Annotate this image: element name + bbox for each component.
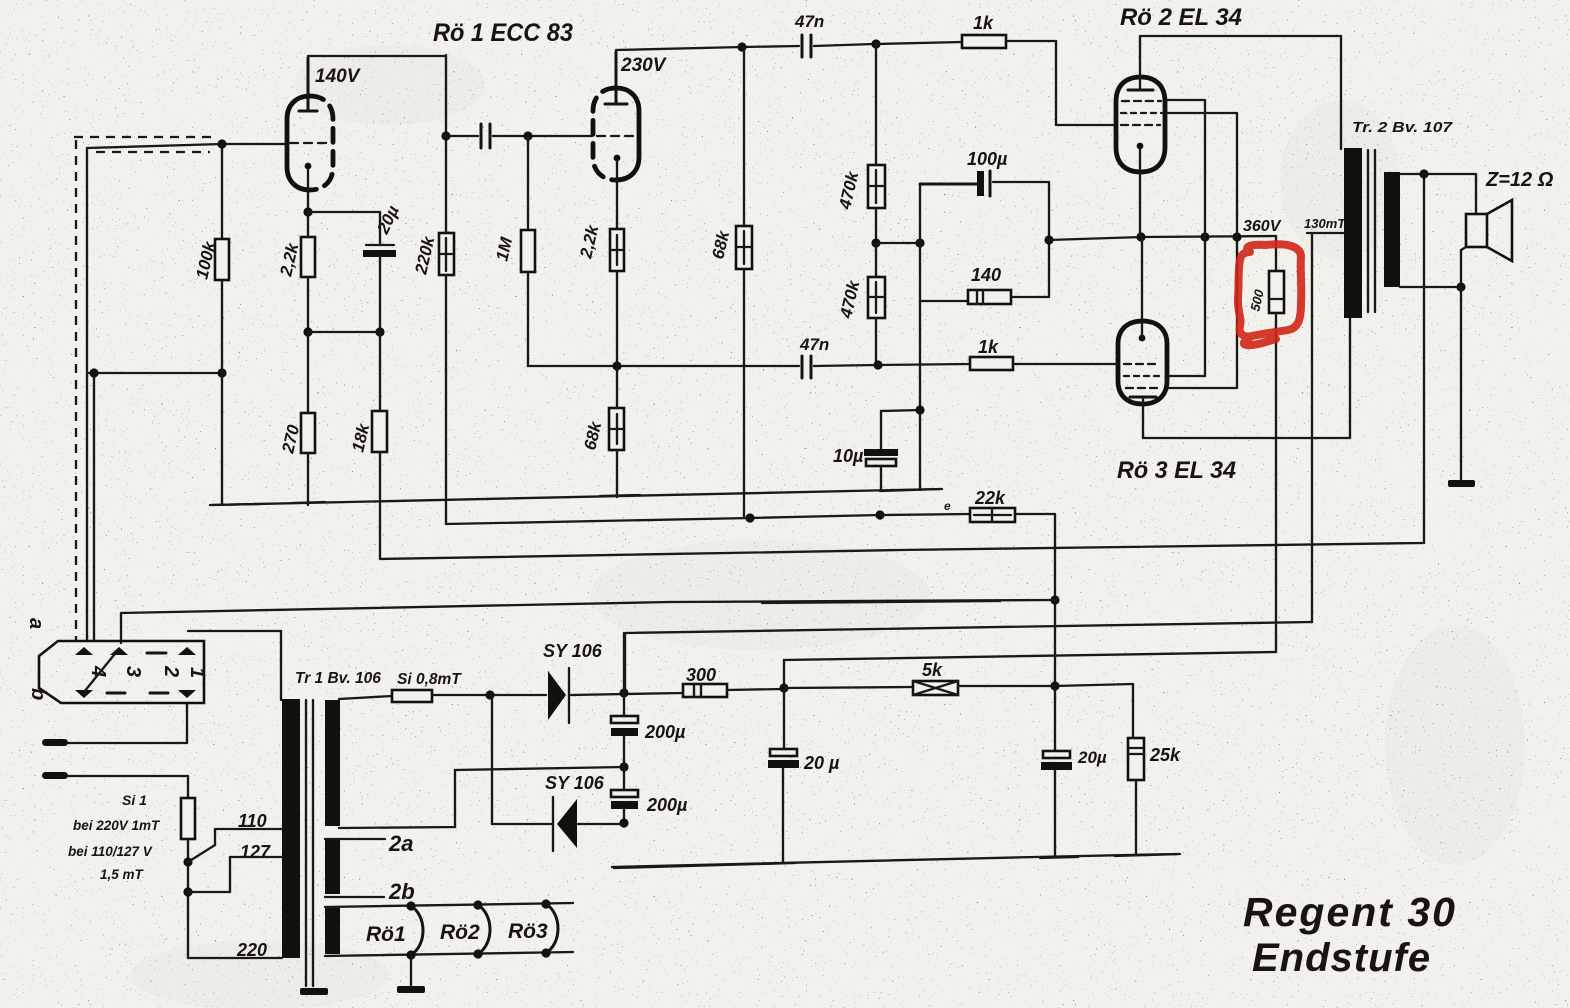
wire coupling left: [446, 135, 478, 137]
label 2a: [388, 831, 413, 856]
node selector 110: [183, 845, 215, 867]
wire 5k to node: [958, 685, 1055, 687]
svg-text:1k: 1k: [973, 13, 994, 33]
node selector 127: [183, 887, 230, 896]
svg-text:47n: 47n: [799, 335, 829, 354]
wire speaker to ground: [1461, 247, 1466, 480]
wire primary tap 220: [188, 957, 282, 959]
wire shield dashed top: [74, 137, 218, 152]
wire 500 bottom long: [784, 313, 1276, 688]
wire mains fuse feed: [339, 696, 392, 699]
resistor 500: [1269, 271, 1284, 313]
transformer Tr2 secondary winding: [1384, 172, 1400, 287]
node rail g2: [1232, 232, 1241, 241]
node heater Rö1: [406, 901, 415, 959]
connector pin 2: [147, 653, 182, 693]
label 22k: [944, 488, 1006, 513]
label Z=12 Ohm: [1485, 169, 1554, 191]
label Tr2 Bv107: [1352, 119, 1453, 136]
node line A 68k: [745, 513, 754, 522]
tube Rö2 cathode: [1137, 143, 1144, 237]
node rail cathodes: [1136, 232, 1145, 241]
svg-text:20µ: 20µ: [1077, 748, 1107, 767]
wire rectifier output up to HT: [623, 633, 625, 693]
wire 1k to grid Rö2: [1006, 41, 1117, 125]
label 100k: [192, 238, 219, 281]
resistor 470k lower: [868, 243, 885, 365]
svg-text:Endstufe: Endstufe: [1252, 936, 1431, 980]
wire Rö3 anode to transformer: [1143, 318, 1350, 438]
ground bus main: [210, 489, 942, 505]
wire 22k right vertical: [1054, 514, 1056, 686]
label Rö1 heater: [366, 923, 406, 946]
resistor 300: [683, 684, 727, 697]
capacitor 20µ psu2: [1041, 686, 1072, 857]
label 68k second: [580, 418, 605, 451]
label 25k: [1149, 745, 1181, 765]
svg-text:2: 2: [160, 665, 182, 677]
svg-text:20 µ: 20 µ: [803, 753, 840, 773]
resistor 100k: [215, 239, 229, 280]
wire 20µ bottom: [379, 257, 381, 332]
wire secondary top to speaker: [1400, 174, 1476, 214]
node 300/20µ/5k: [779, 683, 788, 692]
label SY106 lower: [545, 773, 605, 793]
tube Rö2 g2 dashes: [1121, 112, 1162, 114]
transformer Tr1 secondary winding: [325, 700, 340, 954]
node diode2 output: [619, 818, 628, 827]
svg-text:bei 220V 1mT: bei 220V 1mT: [73, 818, 161, 833]
svg-text:Rö1: Rö1: [366, 923, 406, 946]
node heater Rö2: [473, 900, 482, 958]
label 47n upper: [794, 12, 824, 31]
label 470k lower: [836, 277, 864, 321]
tube Rö2 EL34 envelope: [1116, 77, 1165, 172]
speaker Z=12: [1466, 200, 1512, 261]
wire line C: [121, 600, 1055, 643]
wire rail to 500: [1275, 236, 1277, 271]
svg-text:1k: 1k: [978, 337, 999, 357]
ground core: [300, 988, 328, 995]
tube Rö2 g1 dashes: [1121, 124, 1160, 126]
wire Rö2 anode to transformer: [1140, 36, 1341, 149]
wire lower drive: [617, 364, 970, 366]
resistor 68k (first): [736, 47, 752, 518]
tube Rö2 anode: [1128, 36, 1153, 90]
wire cathode rail: [1049, 236, 1276, 240]
svg-text:300: 300: [686, 665, 716, 685]
wire 1M top lead: [527, 136, 529, 230]
wire bias to 10µ: [881, 301, 925, 450]
wire pin1 to primary top: [188, 631, 281, 700]
label 470k upper: [835, 168, 863, 212]
resistor 220k: [439, 233, 454, 524]
label 18k: [348, 420, 373, 453]
tube Rö3 EL34 envelope: [1118, 321, 1167, 404]
label 20µ first: [373, 202, 403, 237]
ground speaker: [1448, 480, 1475, 487]
node grid Rö1a: [217, 139, 226, 148]
node coupling junction: [441, 131, 450, 140]
svg-text:Regent 30: Regent 30: [1243, 889, 1457, 935]
capacitor 20µ psu1: [768, 688, 799, 862]
wire 300 to node: [727, 689, 783, 690]
wire cathode to 20µ: [308, 212, 380, 243]
capacitor 47n upper: [802, 35, 811, 57]
capacitor 200µ lower: [611, 767, 638, 823]
diode SY106 lower: [492, 696, 624, 851]
label 1k upper: [973, 13, 994, 33]
resistor 2.2k (Rö1b cathode): [610, 229, 624, 366]
tube Rö1a grid dashes: [290, 142, 332, 144]
node speaker bottom junction: [1456, 282, 1465, 291]
label Si1 block: [68, 792, 161, 882]
red repair circle: [1238, 244, 1301, 345]
node input b junctions: [89, 368, 226, 377]
node 470k top junction: [871, 39, 880, 48]
svg-text:130mT: 130mT: [1304, 216, 1346, 231]
svg-text:200µ: 200µ: [644, 722, 686, 742]
svg-text:360V: 360V: [1243, 218, 1282, 235]
svg-text:200µ: 200µ: [646, 795, 688, 815]
svg-text:b: b: [27, 688, 49, 700]
wire NFB line B: [380, 543, 1424, 559]
tube Rö3 g1 dashes: [1124, 363, 1160, 365]
ground heater: [397, 955, 425, 993]
resistor 270: [301, 332, 315, 505]
label 2b: [388, 879, 415, 904]
fuse Si1: [181, 776, 195, 958]
svg-text:1,5 mT: 1,5 mT: [100, 867, 145, 882]
tube Rö1b grid dashes: [597, 135, 635, 137]
wire 100k bottom to ground bus: [221, 280, 223, 505]
connector pin 4: [75, 647, 109, 698]
svg-text:140V: 140V: [315, 66, 361, 87]
wire heater bus top: [325, 903, 573, 907]
node NFB tap: [1419, 169, 1428, 178]
svg-text:SY 106: SY 106: [545, 773, 605, 793]
tube Rö3 anode: [1130, 397, 1156, 438]
wire HT long to rectifier: [625, 622, 1312, 693]
label 1k lower: [978, 337, 999, 357]
node bias/cathode rail junction: [1044, 235, 1053, 244]
ground bus psu: [612, 854, 1180, 868]
terminal mains a: [42, 703, 187, 746]
label SY106 upper: [543, 641, 603, 661]
svg-text:bei 110/127 V: bei 110/127 V: [68, 844, 153, 859]
label 220: [236, 940, 267, 960]
node rail g3: [1200, 232, 1209, 241]
svg-text:Rö 2 EL 34: Rö 2 EL 34: [1120, 4, 1242, 31]
resistor 1k lower: [970, 357, 1013, 370]
label 20µ psu2: [1077, 748, 1107, 767]
connector body: [39, 641, 204, 703]
label 270: [278, 422, 303, 455]
resistor 1M: [521, 230, 535, 272]
svg-text:1: 1: [186, 667, 208, 678]
node doubler midpoint: [619, 762, 628, 771]
resistor 470k upper: [868, 44, 885, 243]
wire 1k lower to grid Rö3: [1013, 363, 1117, 365]
wire secondary 2a stub: [325, 838, 385, 840]
wire doubler mid to 2a tap: [339, 767, 624, 828]
node cathode Rö1a junction: [303, 207, 312, 216]
svg-text:Si 1: Si 1: [122, 792, 147, 808]
svg-text:110: 110: [238, 811, 267, 831]
svg-text:127: 127: [240, 842, 271, 862]
connector pin 1: [178, 647, 208, 698]
tube Rö3 cathode: [1139, 237, 1146, 341]
label Rö3 heater: [508, 920, 548, 943]
label 500: [1247, 287, 1267, 312]
heater Rö2: [478, 905, 490, 954]
node bias junction: [871, 238, 880, 247]
capacitor 20µ (cathode bypass): [363, 245, 396, 257]
label 2,2k first: [276, 240, 303, 279]
tube Rö1a ECC83 triode envelope: [287, 96, 333, 190]
capacitor 200µ upper: [611, 693, 638, 767]
label 130mT: [1304, 216, 1346, 231]
svg-text:Rö2: Rö2: [440, 921, 480, 944]
label Si 0,8mT: [397, 671, 462, 688]
tube Rö1b ECC83 triode envelope: [593, 88, 639, 180]
svg-text:100µ: 100µ: [967, 149, 1008, 169]
wire diode to 300: [571, 693, 683, 695]
node line C end: [1050, 595, 1059, 604]
svg-text:10µ: 10µ: [833, 446, 864, 466]
resistor 68k (second): [609, 366, 624, 497]
transformer Tr2 core: [1368, 150, 1375, 312]
wire shield dashed vertical: [75, 140, 77, 640]
wire secondary bottom: [1400, 286, 1461, 288]
wire fuse to diode: [432, 694, 546, 696]
label 140V: [315, 66, 361, 87]
wire bias bridge right vertical: [1048, 182, 1050, 296]
svg-text:Rö3: Rö3: [508, 920, 548, 943]
tube Rö1b cathode: [614, 155, 621, 229]
svg-text:Tr 1 Bv. 106: Tr 1 Bv. 106: [295, 670, 381, 687]
tube Rö3 g3 dashes: [1124, 375, 1160, 377]
wire anode Rö1b top: [616, 46, 799, 50]
label 300: [686, 665, 716, 685]
node rectifier input: [485, 690, 494, 699]
wire bias junction to bridge: [876, 238, 925, 247]
label Rö3 EL34: [1117, 457, 1236, 484]
wire 2.2k leads: [307, 212, 309, 332]
label 360V: [1243, 218, 1282, 235]
wire primary tap 110: [215, 829, 282, 845]
resistor 5k: [913, 681, 958, 695]
svg-text:47n: 47n: [794, 12, 824, 31]
svg-text:230V: 230V: [620, 55, 667, 76]
label Regent 30: [1243, 889, 1457, 935]
svg-text:Rö 3 EL 34: Rö 3 EL 34: [1117, 457, 1236, 484]
node heater Rö3: [541, 899, 550, 957]
wire secondary 2b stub: [325, 896, 384, 898]
resistor 22k: [880, 508, 1055, 522]
wire 100k top lead: [221, 144, 223, 239]
wire bias to ground bus: [919, 410, 921, 490]
tube Rö1a cathode: [305, 163, 312, 212]
wire line A (B+ rail): [446, 515, 880, 524]
wire node to 5k: [784, 687, 913, 688]
node line A 22k: [875, 510, 884, 519]
node 5k junction: [1050, 681, 1059, 690]
fuse Si 0,8mT: [392, 690, 432, 702]
wire Rö2 g3: [1166, 100, 1205, 376]
capacitor coupling (plates): [481, 124, 490, 148]
label 5k: [922, 660, 943, 680]
label 10µ: [833, 446, 864, 466]
label 110: [238, 811, 267, 831]
wire 47n to 1k: [814, 44, 874, 46]
label 68k first: [708, 227, 733, 260]
label 127: [240, 842, 271, 862]
wire primary tap 127: [230, 857, 282, 892]
wire to 1k upper: [876, 42, 962, 44]
resistor 2.2k (Rö1a cathode): [301, 237, 315, 277]
svg-text:3: 3: [122, 666, 144, 677]
tube Rö1a anode: [299, 58, 317, 111]
svg-text:Rö 1 ECC 83: Rö 1 ECC 83: [433, 19, 573, 47]
svg-text:2b: 2b: [388, 879, 415, 904]
wire input a (grid of Rö1a): [87, 144, 287, 641]
connector pin 3: [107, 647, 144, 693]
svg-text:5k: 5k: [922, 660, 943, 680]
svg-text:a: a: [25, 618, 47, 629]
label 47n lower: [799, 335, 829, 354]
node 470k bottom junction: [873, 360, 882, 369]
label 140: [971, 265, 1001, 285]
node 2.2k/270 junction: [303, 327, 384, 336]
label 200µ lower: [646, 795, 688, 815]
label a: [25, 618, 47, 629]
label b: [27, 688, 49, 700]
svg-text:140: 140: [971, 265, 1001, 285]
capacitor 10µ: [864, 449, 898, 489]
tube Rö3 g2 dashes: [1126, 387, 1158, 389]
wire node to 25k: [1055, 684, 1133, 738]
wire NFB vertical: [1423, 174, 1425, 543]
node Rö1b cathode/1M/47n junction: [612, 361, 621, 370]
tube Rö2 g3 dashes: [1122, 100, 1161, 102]
diode SY106 upper: [548, 668, 569, 723]
node 1M top junction: [523, 131, 532, 140]
svg-text:22k: 22k: [974, 488, 1006, 508]
svg-text:25k: 25k: [1149, 745, 1181, 765]
resistor 18k: [372, 332, 387, 559]
node rectifier output: [619, 688, 628, 697]
transformer Tr2 primary winding: [1344, 148, 1362, 318]
resistor 25k: [1128, 738, 1144, 855]
label 2,2k second: [576, 222, 603, 261]
wire input b: [88, 373, 222, 641]
wire heater bus bottom: [325, 952, 573, 956]
capacitor 47n lower: [802, 356, 811, 378]
svg-text:Tr. 2 Bv. 107: Tr. 2 Bv. 107: [1352, 119, 1453, 136]
wire anode Rö1a to 220k: [308, 55, 446, 233]
label 200µ upper: [644, 722, 686, 742]
resistor 140: [920, 290, 1049, 304]
wire bias bridge left vertical: [919, 184, 921, 301]
svg-text:Si 0,8mT: Si 0,8mT: [397, 671, 462, 688]
label 230V: [620, 55, 667, 76]
label Endstufe: [1252, 936, 1431, 980]
label 220k: [411, 233, 439, 277]
wire Rö2 g2: [1166, 113, 1237, 388]
wire 1M bottom: [528, 272, 617, 366]
label 20µ psu1: [803, 753, 840, 773]
label 1M: [492, 235, 516, 263]
heater Rö1: [411, 906, 423, 955]
svg-text:e: e: [944, 499, 951, 513]
node 68k first top: [737, 42, 746, 51]
resistor 1k upper: [962, 35, 1006, 48]
label Rö2 EL34: [1120, 4, 1242, 31]
tube Rö1b anode: [605, 52, 627, 104]
connector link pin4-pin3: [84, 650, 118, 692]
svg-text:SY 106: SY 106: [543, 641, 603, 661]
terminal mains b: [42, 772, 188, 779]
svg-text:2a: 2a: [388, 831, 413, 856]
label Rö1 ECC83: [433, 19, 573, 47]
label Rö2 heater: [440, 921, 480, 944]
capacitor 100µ: [920, 171, 1049, 196]
wire coupling right to grid Rö1b: [493, 135, 592, 137]
label 100µ: [967, 149, 1008, 169]
svg-text:Z=12 Ω: Z=12 Ω: [1485, 169, 1554, 191]
transformer Tr1 core: [306, 700, 313, 986]
svg-text:220: 220: [236, 940, 267, 960]
transformer Tr1 primary winding: [282, 699, 300, 958]
wire HT to primary centre: [1307, 233, 1344, 622]
heater Rö3: [546, 904, 558, 953]
label Tr1 Bv106: [295, 670, 381, 687]
